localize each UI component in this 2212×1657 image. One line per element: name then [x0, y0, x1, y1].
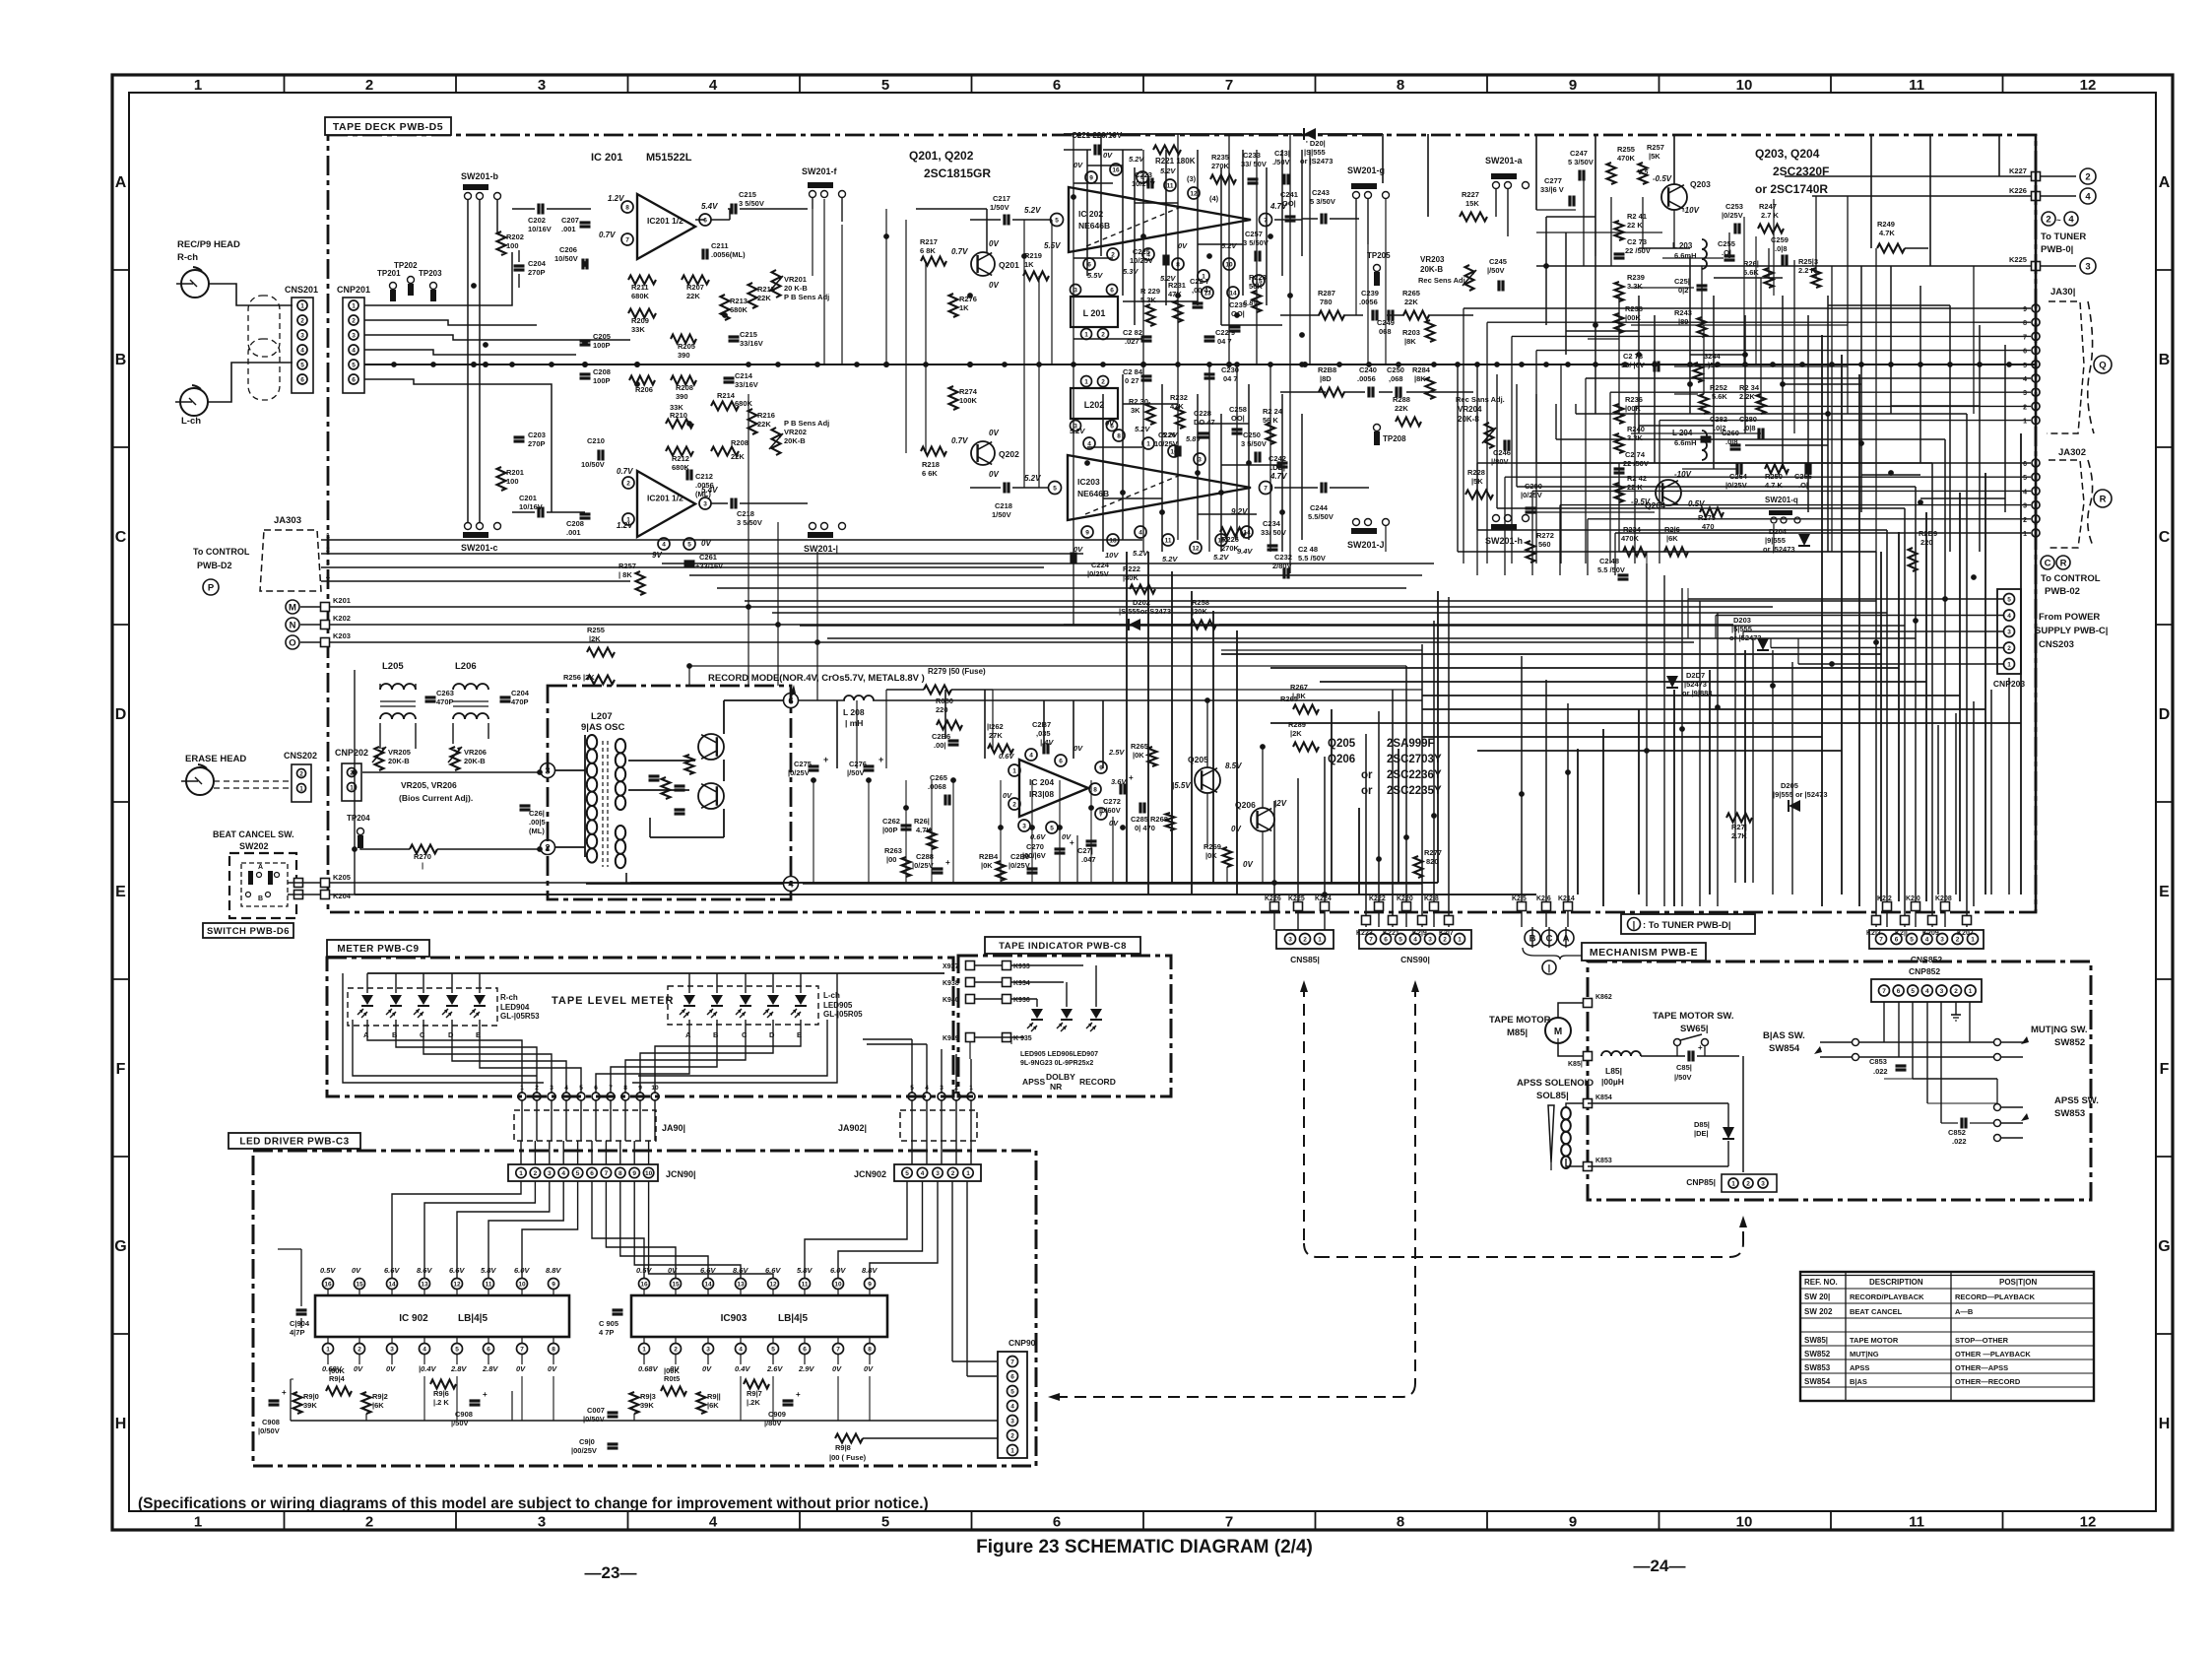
wire horizontals into mechanism зона [1646, 552, 1648, 563]
svg-text:11: 11 [1165, 538, 1172, 545]
svg-text:R26|: R26| [914, 817, 930, 826]
svg-text:20K-B: 20K-B [464, 757, 486, 765]
svg-text:C253: C253 [1725, 202, 1743, 211]
capacitor C909 1/50V [783, 1399, 794, 1402]
svg-text:A: A [2159, 174, 2171, 191]
svg-text:6.6V: 6.6V [765, 1266, 781, 1275]
svg-text:R255: R255 [1617, 145, 1635, 154]
svg-text:C204: C204 [528, 259, 547, 268]
svg-text:F: F [116, 1061, 126, 1078]
wire K227 to pin2 [2041, 175, 2076, 177]
svg-text:ERASE HEAD: ERASE HEAD [185, 754, 246, 764]
svg-text:5: 5 [1053, 486, 1057, 493]
capacitor C852 .022 [1960, 1118, 1963, 1129]
resistor R208 390 [671, 376, 696, 385]
svg-text:9: 9 [1089, 175, 1093, 182]
wire bias node2 to transformer [555, 846, 585, 848]
svg-text:SW853: SW853 [2054, 1108, 2085, 1119]
svg-text:4: 4 [423, 1347, 426, 1354]
svg-text:9V: 9V [652, 551, 662, 560]
wire K853 to solenoid [1566, 1159, 1583, 1166]
svg-text:G: G [114, 1238, 126, 1255]
svg-text:3: 3 [548, 1170, 552, 1177]
bias transistor 2 [698, 783, 724, 809]
resistor R270 [410, 845, 437, 854]
svg-text:22K: 22K [757, 294, 771, 302]
svg-text:C234: C234 [1263, 519, 1281, 528]
svg-text:,00 47: ,00 47 [1192, 286, 1212, 295]
connector JA902 [900, 1110, 977, 1141]
svg-text:470K: 470K [1621, 534, 1640, 543]
svg-text:7: 7 [609, 1085, 613, 1092]
svg-text:5: 5 [881, 77, 889, 94]
svg-text:SW85|: SW85| [1804, 1336, 1828, 1345]
svg-text:K2|2: K2|2 [1877, 895, 1892, 902]
svg-text:1: 1 [1731, 1181, 1735, 1188]
svg-text:1: 1 [350, 785, 354, 792]
svg-text:|0/25V: |0/25V [912, 861, 934, 870]
capacitor C206 10/50V [581, 259, 584, 270]
svg-text:3: 3 [1761, 1181, 1765, 1188]
circled N [286, 618, 299, 631]
svg-text:PWB-0|: PWB-0| [2041, 244, 2073, 255]
svg-text:TP208: TP208 [1383, 434, 1406, 443]
svg-text:OTHER—APSS: OTHER—APSS [1955, 1363, 2008, 1372]
svg-text:JA30|: JA30| [2050, 287, 2075, 298]
svg-text:C208: C208 [566, 519, 584, 528]
svg-text:D205: D205 [1781, 781, 1798, 790]
svg-text:100: 100 [506, 477, 519, 486]
svg-text:.O|: .O| [1798, 481, 1808, 490]
svg-text:K225: K225 [1288, 895, 1305, 902]
svg-text:7: 7 [1264, 486, 1268, 493]
svg-text:K202: K202 [333, 614, 351, 623]
svg-text:5.4V: 5.4V [701, 202, 718, 211]
svg-text:JCN902: JCN902 [854, 1169, 886, 1179]
solenoid SOL851 [1561, 1107, 1571, 1119]
svg-text:R257: R257 [1647, 143, 1664, 152]
svg-text:D204: D204 [1769, 527, 1788, 536]
dashed arrow from CNS851 [1300, 980, 1308, 992]
ic IC903 bottom pins [639, 1344, 650, 1355]
svg-text:3 5/50V: 3 5/50V [739, 199, 764, 208]
svg-text:BEAT CANCEL SW.: BEAT CANCEL SW. [213, 829, 294, 839]
svg-text:M: M [289, 602, 296, 613]
svg-text:|.4V: |.4V [1040, 738, 1054, 747]
svg-text:8: 8 [868, 1347, 872, 1354]
svg-text:6 6K: 6 6K [922, 469, 938, 478]
svg-text:1: 1 [194, 77, 202, 94]
resistor R916 1.2K [430, 1380, 456, 1389]
wire verticals left of IC202 [885, 209, 887, 365]
svg-text:| mH: | mH [845, 718, 863, 728]
svg-text:2: 2 [365, 1514, 373, 1531]
svg-text:5: 5 [1010, 1389, 1014, 1396]
svg-text:K226: K226 [1265, 895, 1281, 902]
svg-text:4: 4 [1010, 1404, 1014, 1411]
svg-text:6: 6 [1110, 288, 1114, 295]
svg-text:R235: R235 [1211, 153, 1229, 162]
wire verticals right cluster [1583, 175, 1585, 266]
resistor R917 1.2K [744, 1380, 769, 1389]
wire IC202 out right [1274, 219, 1302, 221]
svg-text:CNS203: CNS203 [2039, 639, 2074, 650]
svg-text:5.5V: 5.5V [1087, 271, 1103, 280]
svg-text:JCN90|: JCN90| [666, 1169, 696, 1179]
wire vertical drops to CNS851 [1273, 801, 1275, 901]
svg-text:C288: C288 [916, 852, 934, 861]
vr VR205 [375, 747, 384, 770]
svg-text:|00µH: |00µH [1601, 1077, 1624, 1087]
svg-text:C210: C210 [587, 436, 605, 445]
svg-text:|0/25V: |0/25V [788, 768, 810, 777]
svg-text:L85|: L85| [1605, 1066, 1622, 1076]
svg-text:C206: C206 [559, 245, 577, 254]
svg-text:|DE|: |DE| [1694, 1129, 1709, 1138]
svg-text:5.8V: 5.8V [481, 1266, 496, 1275]
svg-text:C255: C255 [1718, 239, 1735, 248]
svg-text:560: 560 [1538, 540, 1551, 549]
terminal K862 [1584, 999, 1593, 1008]
svg-text:C|904: C|904 [290, 1319, 310, 1328]
svg-text:K204: K204 [333, 892, 352, 900]
svg-text:1: 1 [520, 1085, 524, 1092]
svg-text:From POWER: From POWER [2039, 612, 2100, 623]
svg-text:6.0V: 6.0V [514, 1266, 530, 1275]
svg-text:SW201-a: SW201-a [1485, 156, 1524, 166]
svg-text:DESCRIPTION: DESCRIPTION [1869, 1278, 1923, 1287]
svg-text:22K: 22K [686, 292, 700, 300]
svg-text:C265: C265 [930, 773, 947, 782]
svg-text:P B Sens Adj: P B Sens Adj [784, 419, 829, 428]
svg-text:IC 202: IC 202 [1078, 209, 1103, 219]
svg-text:Q203, Q204: Q203, Q204 [1755, 147, 1820, 161]
svg-text:R9|0: R9|0 [303, 1392, 319, 1401]
wires tape indicator [975, 964, 1002, 966]
svg-text:IC201 1/2: IC201 1/2 [647, 494, 683, 503]
svg-text:5.4V: 5.4V [701, 486, 718, 495]
svg-text:B|AS SW.: B|AS SW. [1763, 1030, 1805, 1041]
svg-text:39K: 39K [303, 1401, 317, 1410]
svg-text:C207: C207 [561, 216, 579, 225]
svg-text:SW201-c: SW201-c [461, 543, 498, 553]
svg-text:0.7V: 0.7V [599, 231, 616, 239]
svg-text:R: R [2060, 558, 2067, 568]
resistor R201 100 [497, 467, 506, 491]
svg-text:0.6V: 0.6V [999, 752, 1014, 761]
svg-text:|0/25V: |0/25V [1521, 491, 1542, 499]
svg-text:0V: 0V [1003, 791, 1012, 800]
capacitor C202 10/16V [537, 204, 540, 215]
svg-text:2SC1815GR: 2SC1815GR [924, 166, 991, 180]
capacitor C205 100P [580, 339, 591, 342]
svg-text:D: D [115, 706, 127, 723]
svg-text:R265: R265 [1402, 289, 1420, 298]
svg-text:R255: R255 [587, 626, 605, 634]
svg-text:1: 1 [1969, 988, 1973, 995]
wire record mode bus [799, 699, 845, 701]
resistor R209 33K [628, 309, 656, 318]
vr VR201 PB Sens Adj [772, 270, 781, 298]
circled Q [2094, 356, 2112, 373]
svg-text:+: + [1070, 838, 1074, 847]
svg-text:NE646B: NE646B [1077, 489, 1109, 498]
wire Q201 collector up [986, 209, 988, 252]
resistor R215 22K [748, 283, 757, 308]
svg-text:P B Sens Adj: P B Sens Adj [784, 293, 829, 301]
svg-text:R279 |50 (Fuse): R279 |50 (Fuse) [928, 667, 986, 676]
svg-text:3 5/50V: 3 5/50V [1241, 439, 1267, 448]
wire verticals bias to erow [688, 666, 690, 686]
svg-text:H: H [115, 1416, 127, 1432]
op-amp IC204 IR3108 [1019, 760, 1088, 817]
svg-text:+: + [796, 1390, 801, 1399]
svg-text:R9|3: R9|3 [640, 1392, 656, 1401]
svg-text:2: 2 [358, 1347, 361, 1354]
svg-text:NR: NR [1050, 1082, 1062, 1092]
svg-text:C262: C262 [882, 817, 900, 826]
transistor Q201 [971, 252, 995, 276]
svg-text:7: 7 [1879, 937, 1883, 944]
svg-text:R203: R203 [1402, 328, 1420, 337]
wire bus row B [364, 364, 2036, 365]
svg-text:1: 1 [352, 303, 356, 310]
connector JA902 pins [908, 1093, 916, 1100]
svg-text:D203: D203 [1733, 616, 1751, 625]
shield cable dashed L [248, 339, 280, 400]
svg-text:C2 73: C2 73 [1627, 237, 1647, 246]
svg-text:470P: 470P [511, 697, 529, 706]
svg-text:6: 6 [1059, 759, 1063, 765]
svg-text:100P: 100P [593, 376, 611, 385]
svg-text:|6K: |6K [1666, 534, 1678, 543]
svg-text:|20K: |20K [1192, 607, 1207, 616]
jack JA301 cable wavy edge [2088, 301, 2094, 433]
label MECHANISM PWB-E [1582, 943, 1706, 961]
wire verticals Q205 zone [1126, 552, 1128, 883]
svg-text:2: 2 [1956, 937, 1960, 944]
resistor R216 22K [748, 409, 757, 434]
svg-text:8: 8 [2023, 320, 2027, 327]
wire verticals middle cluster [1073, 134, 1074, 625]
svg-text:3: 3 [1073, 288, 1077, 295]
svg-text:CNS85|: CNS85| [1290, 955, 1320, 964]
svg-text:6: 6 [1053, 1514, 1061, 1531]
svg-text:A: A [363, 1030, 369, 1039]
svg-text:9: 9 [1569, 77, 1577, 94]
label TAPE INDICATOR PWB-C8 [985, 937, 1140, 954]
svg-text:SW201-g: SW201-g [1347, 166, 1385, 175]
svg-text:3: 3 [2085, 261, 2090, 272]
svg-text:R213: R213 [730, 297, 748, 305]
svg-text:R9||: R9|| [707, 1392, 721, 1401]
svg-text:E: E [2159, 884, 2170, 900]
svg-text:GL-|05R53: GL-|05R53 [500, 1012, 540, 1021]
svg-text:C: C [2159, 529, 2171, 546]
svg-text:9: 9 [2023, 306, 2027, 313]
svg-text:0V: 0V [989, 470, 999, 479]
svg-text:R218: R218 [922, 460, 940, 469]
svg-text:|9|555 or |52473: |9|555 or |52473 [1773, 790, 1828, 799]
svg-text:4: 4 [1925, 988, 1929, 995]
svg-text:5 3/50V: 5 3/50V [1310, 197, 1335, 206]
svg-text:C201: C201 [519, 494, 537, 502]
svg-text:(ML): (ML) [529, 827, 545, 835]
column separators top [284, 75, 286, 93]
svg-text:or: or [1361, 785, 1373, 797]
svg-text:TP201: TP201 [377, 269, 401, 278]
svg-text:R287: R287 [1318, 289, 1335, 298]
svg-text:C232: C232 [1274, 553, 1292, 562]
wire meter fan L-ch [596, 1020, 689, 1093]
circled node 3 [541, 763, 555, 778]
wires JA902 to JCN902 [911, 1100, 913, 1164]
svg-text:R265: R265 [1131, 742, 1148, 751]
wire bias bottom to node4 [625, 873, 627, 884]
transformer L207 secondary [616, 739, 625, 753]
svg-text:5: 5 [905, 1170, 909, 1177]
svg-text:C215: C215 [739, 190, 756, 199]
svg-text:L205: L205 [382, 661, 404, 672]
svg-text:2: 2 [2085, 171, 2090, 182]
svg-text:C228: C228 [1194, 409, 1211, 418]
wire long verticals right zone [1646, 563, 1648, 906]
switch SW851 [1674, 1039, 1681, 1046]
svg-text:C247: C247 [1570, 149, 1588, 158]
svg-text:|0/25V: |0/25V [1722, 211, 1743, 220]
border frame inner [129, 93, 2156, 1511]
svg-text:VR204: VR204 [1458, 405, 1482, 414]
svg-text:VR205, VR206: VR205, VR206 [401, 780, 457, 790]
svg-text:8.6V: 8.6V [417, 1266, 432, 1275]
transistor Q206 [1251, 808, 1274, 831]
svg-text:14: 14 [1229, 291, 1237, 298]
circled B C A [1525, 930, 1540, 946]
wires meter box to JA902 [911, 1039, 913, 1093]
svg-text:C204: C204 [511, 689, 530, 697]
circled 2 [2080, 168, 2096, 184]
diode D851 [1723, 1127, 1734, 1139]
svg-text:VR202: VR202 [784, 428, 807, 436]
svg-text:C: C [115, 529, 127, 546]
svg-text:7: 7 [836, 1347, 840, 1354]
svg-text:0V: 0V [1105, 419, 1115, 428]
capacitor C214 33/16V [724, 376, 735, 379]
svg-text:14: 14 [388, 1282, 396, 1289]
svg-text:18: 18 [1109, 538, 1117, 545]
terminals K223 K221 K219 K217 lower [1362, 916, 1371, 925]
svg-text:6: 6 [487, 1347, 490, 1354]
svg-text:0.4V: 0.4V [735, 1364, 750, 1373]
svg-text:R216: R216 [757, 411, 775, 420]
svg-text:2: 2 [2046, 214, 2050, 225]
wire risers JA301 bundle [1463, 308, 1464, 563]
junction dots scattered [471, 283, 477, 289]
svg-text:10/25V: 10/25V [1130, 256, 1153, 265]
wires L205 L206 area [379, 723, 381, 749]
circled C R To CONTROL PWB-D2 [2041, 556, 2054, 569]
svg-text:56K: 56K [1249, 282, 1263, 291]
svg-text:4: 4 [739, 1347, 743, 1354]
svg-text:12: 12 [1192, 546, 1200, 553]
wire Q205 collector riser [1206, 700, 1208, 767]
svg-text:C9|0: C9|0 [579, 1437, 595, 1446]
label To TUNER PWB-D1 box [1621, 914, 1755, 934]
svg-text:|9|555: |9|555 [1765, 536, 1786, 545]
svg-text:|8K: |8K [1404, 337, 1416, 346]
svg-text:.001: .001 [561, 225, 576, 233]
svg-text:7: 7 [605, 1170, 609, 1177]
circled I [1542, 961, 1556, 974]
led group R-ch dashed box [348, 988, 497, 1026]
svg-text:8: 8 [623, 1085, 627, 1092]
svg-text:CNP90|: CNP90| [1008, 1338, 1038, 1348]
svg-text:4: 4 [2007, 613, 2011, 620]
svg-text:8: 8 [618, 1170, 622, 1177]
svg-text:4: 4 [2068, 214, 2074, 225]
wire verticals K93x to JA902 [969, 1042, 971, 1059]
svg-text:6: 6 [300, 377, 304, 384]
svg-text:9.4V: 9.4V [1237, 547, 1253, 556]
svg-text:6: 6 [1897, 988, 1901, 995]
svg-text:6 8K: 6 8K [920, 246, 936, 255]
svg-text:0.7V: 0.7V [617, 467, 633, 476]
svg-text:(Specifications or wiring diag: (Specifications or wiring diagrams of th… [138, 1495, 929, 1512]
wire TP204 to R270 to node2 [360, 848, 410, 849]
svg-text:VR206: VR206 [464, 748, 487, 757]
resistor R205 390 [671, 335, 696, 344]
svg-text:22 K: 22 K [1627, 221, 1643, 230]
svg-text:|: | [422, 861, 423, 870]
svg-text:|0K: |0K [981, 861, 993, 870]
terminal K853 [1584, 1162, 1593, 1171]
terminal K227 [2032, 172, 2041, 181]
svg-text:4: 4 [1029, 753, 1033, 760]
svg-text:.0056(ML): .0056(ML) [711, 250, 746, 259]
ic IC902 LB1415 [315, 1295, 569, 1337]
terminals K215 K216 K214 [1518, 902, 1527, 911]
label SWITCH PWB-D6 [203, 923, 293, 938]
switch SW201-h [1491, 524, 1517, 530]
svg-text:5: 5 [2023, 363, 2027, 369]
svg-text:L-ch: L-ch [181, 416, 201, 427]
svg-text:3: 3 [1010, 1419, 1014, 1425]
svg-text:12: 12 [1190, 191, 1198, 198]
resistor R914 100K [326, 1387, 352, 1396]
capacitor C204 270P [514, 264, 525, 267]
svg-text:2: 2 [1443, 937, 1447, 944]
svg-text:680K: 680K [735, 399, 753, 408]
svg-text:JA302: JA302 [2058, 447, 2086, 458]
svg-text:or 2SC1740R: or 2SC1740R [1755, 182, 1828, 196]
svg-text:1/50V: 1/50V [990, 203, 1009, 212]
svg-text:4|7P: 4|7P [290, 1328, 304, 1337]
resistor R276 1K [949, 294, 958, 317]
svg-text:20K-8: 20K-8 [1458, 415, 1479, 424]
svg-text:C226: C226 [1158, 431, 1176, 439]
circled M [286, 600, 299, 614]
wire verticals record zone [836, 700, 838, 768]
resistor R213 680K [721, 295, 730, 320]
svg-text:R2B9: R2B9 [1919, 529, 1937, 538]
svg-text:R223: R223 [1249, 273, 1267, 282]
wire long horizontals row D extra [1221, 653, 1881, 655]
svg-text:SW853: SW853 [1804, 1363, 1831, 1372]
svg-text:MUT|NG: MUT|NG [1850, 1350, 1879, 1359]
svg-text:IC 201: IC 201 [591, 152, 622, 164]
wire mesh right extra horizontals [1546, 216, 1595, 218]
svg-text:K2|5: K2|5 [1512, 895, 1527, 902]
